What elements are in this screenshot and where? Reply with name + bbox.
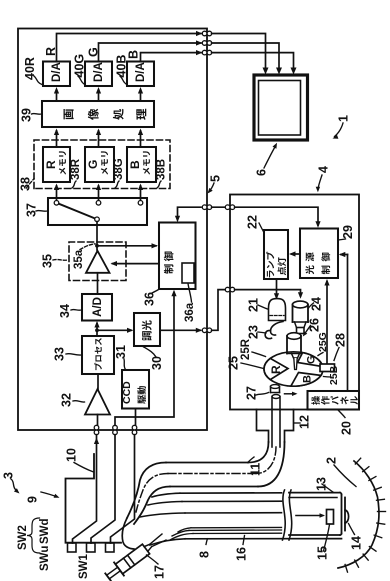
- svg-text:2: 2: [325, 457, 339, 464]
- svg-text:6: 6: [255, 169, 269, 176]
- svg-text:SW2: SW2: [17, 525, 29, 550]
- svg-text:29: 29: [341, 225, 355, 239]
- svg-text:13: 13: [315, 477, 329, 491]
- svg-text:34: 34: [58, 304, 72, 318]
- svg-text:17: 17: [153, 565, 167, 579]
- svg-text:D/A: D/A: [51, 62, 63, 82]
- svg-text:31: 31: [114, 345, 128, 359]
- svg-text:4: 4: [317, 166, 331, 173]
- svg-text:30: 30: [150, 356, 164, 370]
- svg-text:B: B: [128, 160, 142, 169]
- svg-text:G: G: [86, 160, 100, 169]
- svg-text:28: 28: [334, 333, 348, 347]
- svg-text:16: 16: [235, 547, 249, 561]
- svg-text:25R: 25R: [240, 338, 252, 360]
- svg-text:25B: 25B: [328, 365, 340, 385]
- svg-text:38G: 38G: [113, 158, 125, 180]
- svg-text:12: 12: [298, 415, 312, 429]
- svg-text:R: R: [44, 160, 58, 169]
- svg-text:40R: 40R: [23, 57, 37, 80]
- svg-text:SW1: SW1: [78, 553, 90, 579]
- svg-text:24: 24: [310, 297, 324, 311]
- svg-text:15: 15: [316, 546, 330, 560]
- svg-text:B: B: [301, 375, 313, 383]
- svg-text:35: 35: [41, 254, 55, 268]
- svg-text:38R: 38R: [70, 158, 82, 180]
- svg-text:G: G: [87, 47, 101, 57]
- svg-text:27: 27: [245, 386, 259, 400]
- svg-text:23: 23: [247, 325, 261, 339]
- svg-text:9: 9: [26, 496, 40, 503]
- svg-text:D/A: D/A: [93, 62, 105, 82]
- svg-text:A/D: A/D: [92, 297, 104, 317]
- svg-text:3: 3: [2, 472, 16, 479]
- svg-text:5: 5: [209, 175, 223, 182]
- svg-text:40G: 40G: [73, 54, 87, 78]
- svg-text:SWu: SWu: [39, 546, 51, 571]
- svg-text:G: G: [305, 355, 317, 364]
- svg-text:8: 8: [198, 551, 212, 558]
- svg-text:39: 39: [20, 108, 34, 122]
- svg-text:21: 21: [247, 298, 261, 312]
- svg-text:37: 37: [25, 203, 39, 217]
- svg-text:26: 26: [308, 318, 322, 332]
- svg-text:CCD: CCD: [121, 381, 133, 404]
- svg-text:20: 20: [340, 421, 354, 435]
- svg-text:25: 25: [227, 356, 241, 370]
- svg-text:D/A: D/A: [135, 62, 147, 82]
- svg-text:25G: 25G: [317, 332, 329, 352]
- svg-text:22: 22: [246, 215, 260, 229]
- svg-text:14: 14: [350, 536, 364, 550]
- svg-text:SWd: SWd: [39, 518, 51, 544]
- svg-text:10: 10: [65, 448, 79, 462]
- svg-text:33: 33: [53, 347, 67, 361]
- svg-text:36a: 36a: [184, 302, 196, 322]
- svg-text:35a: 35a: [73, 249, 85, 269]
- svg-text:36: 36: [143, 292, 157, 306]
- svg-text:32: 32: [60, 393, 74, 407]
- svg-text:38: 38: [19, 177, 33, 191]
- svg-text:11: 11: [249, 463, 263, 476]
- svg-text:1: 1: [337, 115, 351, 122]
- svg-text:R: R: [269, 365, 283, 374]
- svg-text:40B: 40B: [115, 55, 129, 78]
- svg-text:B: B: [127, 50, 141, 59]
- svg-text:R: R: [44, 47, 58, 56]
- svg-text:38B: 38B: [155, 159, 167, 180]
